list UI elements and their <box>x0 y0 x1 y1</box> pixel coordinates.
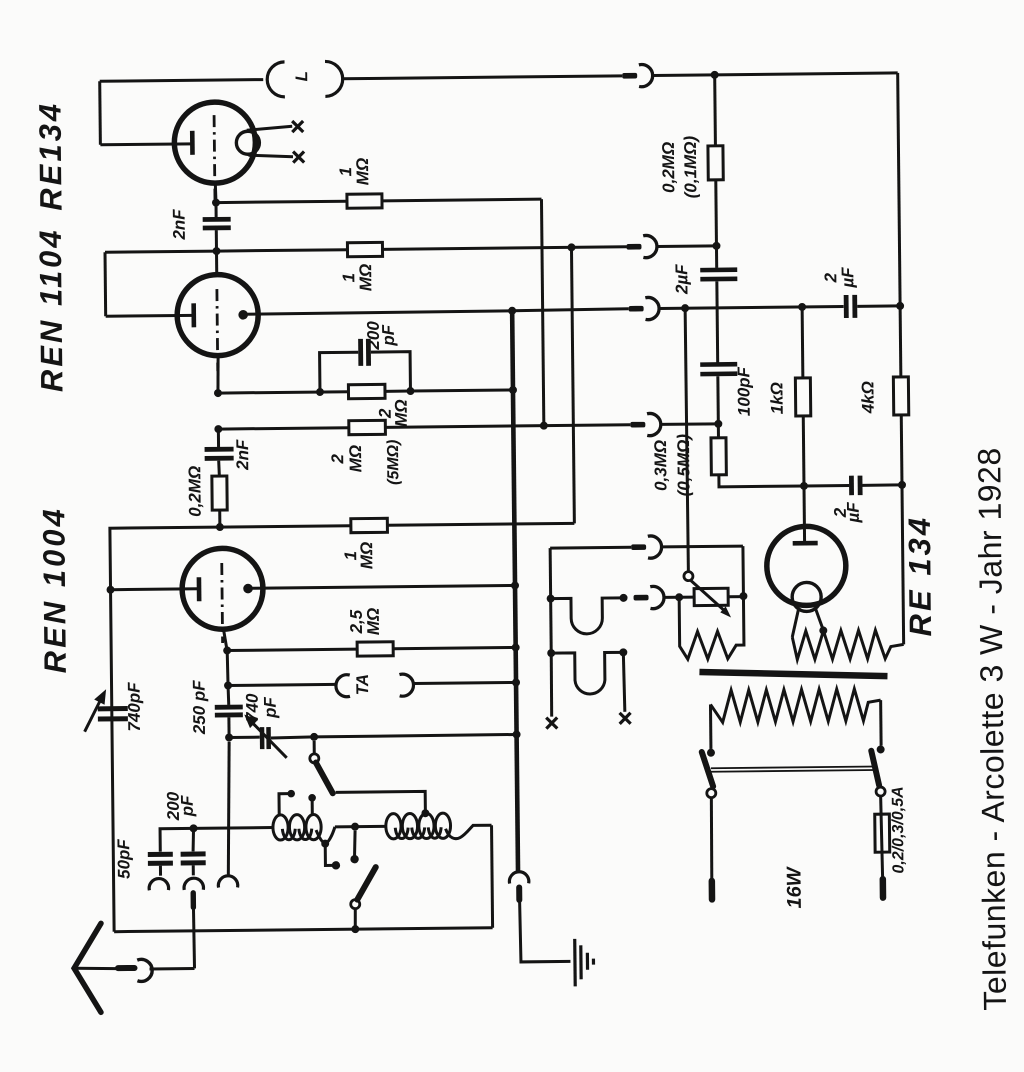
resistor fixed zigzag below rheostat <box>679 546 744 659</box>
svg-text:REN 1104: REN 1104 <box>33 227 70 392</box>
wire heater lead top <box>247 126 293 130</box>
wire antenna row <box>74 968 116 969</box>
wire row426 to connector <box>385 425 630 428</box>
tube REN1004 axis dash-dot <box>220 563 224 643</box>
node rheostat right <box>739 592 747 600</box>
transformer core bar <box>699 670 887 678</box>
tuning cap arrow <box>84 700 101 732</box>
svg-text:REN 1004: REN 1004 <box>36 506 73 673</box>
node bus row390 <box>509 386 517 394</box>
wire grid bus (thick) <box>512 311 518 871</box>
svg-text:1kΩ: 1kΩ <box>767 382 786 414</box>
resistor 2M (RC combo) <box>348 384 385 398</box>
wire antenna to riser <box>150 967 195 970</box>
antenna symbol <box>74 923 102 1012</box>
resistor 1M row524 <box>351 518 388 532</box>
terminal x top <box>292 121 303 132</box>
wire 2nF2 to 0.2M2 <box>217 461 221 476</box>
wire filament leg right <box>815 608 823 630</box>
switch coupling bar <box>711 767 876 772</box>
resistor 0.2M (0.1M) <box>708 146 723 180</box>
tube REN1104 grid dot <box>238 310 248 320</box>
wire R2 to node <box>382 247 626 250</box>
plug connector row 248 <box>626 244 641 250</box>
wire node to switch1 <box>313 741 316 754</box>
trimmer arrow <box>250 720 287 758</box>
wire tube REN1104 bottom lead <box>216 356 220 392</box>
capacitor 740pF tuning <box>98 706 128 711</box>
wire corner down to row 426 <box>541 199 543 425</box>
resistor 1k <box>795 378 810 416</box>
wire REN1004 column <box>226 650 230 685</box>
rheostat pivot circle <box>684 572 693 581</box>
tube RE134 anode loop <box>236 131 259 154</box>
wire 0.2M to row248 <box>714 180 718 246</box>
wire top row right segment <box>653 73 897 76</box>
wire rheostat box leads <box>679 595 743 599</box>
plug pin antenna <box>191 893 197 907</box>
node bus row682 <box>512 678 520 686</box>
node grid bus top <box>508 307 516 315</box>
svg-text:250 pF: 250 pF <box>189 680 209 736</box>
wire top row middle segment <box>341 76 622 79</box>
wire 50pF to socket <box>159 866 162 876</box>
node row734 switch <box>310 733 318 741</box>
svg-text:MΩ: MΩ <box>364 608 383 636</box>
wire trim cap to node <box>271 737 314 738</box>
node row426 left <box>214 425 222 433</box>
node 1k column top <box>798 303 806 311</box>
rheostat arrow <box>691 580 727 613</box>
resistor R2 1 Mohm <box>347 242 382 256</box>
node row248 / riser <box>567 243 575 251</box>
resistor 2M (5M) <box>349 420 386 434</box>
node RC left <box>316 388 324 396</box>
node right bus row489 <box>898 481 906 489</box>
node winding left <box>707 749 715 757</box>
capacitor 200pF loop wires <box>320 352 411 392</box>
node rheostat column top <box>681 304 689 312</box>
node top row / 0.2M column <box>711 71 719 79</box>
wire row489 to 2uF <box>804 484 849 487</box>
wire 200pF branch <box>191 828 195 851</box>
tube REN 1104 envelope <box>177 274 259 356</box>
capacitor 100pF <box>700 362 737 367</box>
svg-text:16W: 16W <box>783 865 805 908</box>
plug pin left <box>709 881 716 899</box>
node bus row585 <box>511 581 519 589</box>
wire left bus top segment <box>98 81 102 144</box>
resistor R1 1 Mohm <box>347 194 382 208</box>
svg-text:0,2MΩ: 0,2MΩ <box>185 466 205 517</box>
wire connector row426 to 0.3M <box>661 422 718 426</box>
plug pin bus bottom <box>516 887 522 899</box>
wire third socket lead <box>227 742 231 875</box>
svg-text:L: L <box>292 71 311 82</box>
svg-text:2µF: 2µF <box>672 264 691 295</box>
wire tube REN1104 input lead <box>106 314 194 318</box>
svg-text:pF: pF <box>379 324 398 347</box>
switch pivot right <box>876 787 885 796</box>
wire row524 right <box>387 523 574 525</box>
svg-text:100pF: 100pF <box>734 366 754 416</box>
plug connector row547 <box>631 544 646 550</box>
wire row734 to trim cap <box>229 736 260 739</box>
wire top row left segment <box>100 80 263 82</box>
svg-text:50pF: 50pF <box>114 839 133 879</box>
wire 100pF to row426 <box>716 376 719 424</box>
node center tap <box>351 823 359 831</box>
svg-text:2: 2 <box>328 453 347 464</box>
wire row547 left <box>550 546 631 550</box>
wire winding left lead <box>709 704 712 748</box>
capacitor 250pF <box>215 705 243 710</box>
socket arc third <box>218 876 238 888</box>
wire bottom row <box>114 928 492 932</box>
tube RE134 output grid bar <box>793 541 818 546</box>
capacitor 2nF lower <box>205 447 234 452</box>
wire connector to 0.2M column <box>657 244 716 248</box>
node coil tap right <box>421 809 429 817</box>
node 200pF tap <box>190 824 198 832</box>
svg-text:MΩ: MΩ <box>392 399 411 427</box>
rheostat box <box>694 588 728 605</box>
wire grid row REN1104 to bus <box>243 311 512 315</box>
wire to terminal x2 <box>623 652 625 712</box>
switch2 lever <box>357 867 376 899</box>
resistor 2.5M <box>357 642 393 656</box>
wire RC right <box>385 390 410 393</box>
svg-text:(0,1MΩ): (0,1MΩ) <box>681 135 701 198</box>
svg-text:(5MΩ): (5MΩ) <box>385 439 402 485</box>
svg-text:4kΩ: 4kΩ <box>858 381 877 414</box>
coil L1 tap stub 2 <box>311 801 314 814</box>
wire switch1 to coil tap <box>336 791 426 811</box>
wire left pole <box>711 798 712 879</box>
svg-text:740pF: 740pF <box>125 682 145 732</box>
capacitor 740pF trimmer (series) <box>260 727 265 749</box>
wire rheostat column <box>685 308 688 571</box>
wire row647 <box>227 649 357 650</box>
wire row426 left <box>218 428 348 429</box>
plug connector row426 <box>630 422 645 428</box>
wire left bus segment <box>104 252 108 316</box>
tube RE134 axis dash-dot <box>213 115 217 199</box>
connector TA <box>336 674 414 697</box>
wire 2uF to right bus <box>857 304 900 307</box>
resistor 0.2M lower <box>212 476 227 510</box>
svg-text:0,2MΩ: 0,2MΩ <box>659 142 679 193</box>
switch2 pivot <box>351 900 360 909</box>
wire into 2nF cap <box>214 203 217 217</box>
wire 1k to row489 <box>802 416 806 486</box>
wire tube REN1104 top lead <box>215 251 218 275</box>
coil L2 exit <box>446 825 492 839</box>
svg-text:RE134: RE134 <box>32 101 68 211</box>
svg-text:pF: pF <box>178 795 197 818</box>
node row426 right <box>714 420 722 428</box>
wire right bus vertical <box>898 73 904 644</box>
wire riser row524 to row248 <box>571 247 574 523</box>
wire winding right lead <box>879 700 882 745</box>
wire top to 0.2M resistor <box>713 75 717 146</box>
capacitor 50pF <box>148 852 173 857</box>
wire U-link column <box>550 548 551 653</box>
wire row248 to 2uF <box>715 246 718 268</box>
node filament tap <box>819 627 827 635</box>
stub below L1 exit <box>325 846 333 866</box>
wire between coils <box>335 825 385 829</box>
switch1 pivot <box>310 754 319 763</box>
coil L1 exit to tap <box>316 827 335 844</box>
svg-text:TA: TA <box>353 674 372 696</box>
resistor filament zigzag <box>792 630 904 660</box>
coil L2 (4 turns) <box>386 814 401 839</box>
socket arc 200pF <box>184 878 204 890</box>
svg-text:0,2/0,3/0,5A: 0,2/0,3/0,5A <box>890 786 908 873</box>
plug connector row599 <box>634 595 649 601</box>
wire 250pF to row734 <box>227 717 230 737</box>
stub below center tap <box>354 831 355 857</box>
tube RE134 (detector) envelope <box>174 102 256 184</box>
node bus row734 <box>513 730 521 738</box>
tube REN1004 electrode bar <box>197 577 202 601</box>
svg-text:pF: pF <box>261 696 280 719</box>
coil L1 tap stub 1 <box>279 794 288 816</box>
svg-text:(0,5MΩ): (0,5MΩ) <box>674 434 694 497</box>
node row426 riser <box>540 422 548 430</box>
coil L1 (3 turns) <box>273 815 288 840</box>
tube RE134 output filament loop <box>792 582 821 611</box>
wire 200pF to socket <box>192 865 195 875</box>
node U2 left <box>547 649 555 657</box>
capacitor 200pF plates <box>358 339 363 366</box>
tube RE134 electrode bar <box>190 131 195 155</box>
svg-text:740: 740 <box>243 693 262 722</box>
resistor 0.3M (0.5M) <box>711 438 726 475</box>
switch lever right <box>871 751 879 786</box>
socket arc 50pF <box>149 878 169 890</box>
wire row to R1 <box>216 201 347 202</box>
node row682 left <box>224 681 232 689</box>
capacitor 200pF antenna <box>181 851 206 856</box>
socket arc antenna row <box>137 959 152 981</box>
wire 2uF to right bus <box>862 483 901 486</box>
wire switch2 to bottom row <box>354 909 357 926</box>
wire connector to 2uF cap <box>660 307 844 309</box>
tube REN1104 axis dash-dot <box>215 289 219 371</box>
svg-text:MΩ: MΩ <box>357 542 376 570</box>
node bottom switch <box>351 925 359 933</box>
tube REN1004 grid dot <box>243 584 253 594</box>
wire tube REN1004 bottom lead <box>223 629 226 648</box>
wire row248 to left bus <box>105 251 216 252</box>
plug connector top row <box>622 73 637 79</box>
node RC right <box>406 387 414 395</box>
wire row647 to bus <box>393 647 515 648</box>
transformer winding <box>710 689 881 723</box>
tube RE134 output envelope <box>766 526 846 606</box>
node winding right <box>877 745 885 753</box>
node row647 left <box>223 646 231 654</box>
wire row310 to 100pF <box>716 308 720 363</box>
wire L2 right corner down <box>492 825 493 927</box>
wire tube RE134 input lead <box>100 142 192 146</box>
node row489 / grid column <box>800 482 808 490</box>
node L1 lower tap <box>321 840 329 848</box>
node row734 left <box>225 733 233 741</box>
wire filament leg left <box>792 608 799 637</box>
wire grid row to connector <box>512 309 629 311</box>
wire row426 to 2nF2 <box>217 429 220 447</box>
resistor 4k (on right bus) <box>893 377 908 415</box>
node bus row647 <box>512 643 520 651</box>
svg-text:µF: µF <box>838 267 857 289</box>
wire row734 to bus <box>314 734 516 736</box>
capacitor 2nF (coupling) <box>203 217 231 222</box>
svg-text:2nF: 2nF <box>233 439 252 471</box>
wire row390 <box>218 392 348 393</box>
wire right pole <box>881 796 883 877</box>
node cathode RE134 <box>212 199 220 207</box>
node left bus row585 <box>106 586 114 594</box>
wire tube REN1004 input lead <box>111 587 199 591</box>
U-link 2 <box>551 652 624 694</box>
svg-text:MΩ: MΩ <box>353 158 372 186</box>
wire row682 left <box>228 684 336 685</box>
wire bus pin to ground <box>520 901 571 962</box>
svg-text:MΩ: MΩ <box>356 264 375 292</box>
node U1 left <box>547 595 555 603</box>
tube REN1104 electrode bar <box>191 303 196 327</box>
wire 1k column top <box>801 307 805 378</box>
wire 50pF branch <box>160 828 193 851</box>
capacitor 2uF (right, row 310) <box>844 295 849 318</box>
node row 248 left <box>212 247 220 255</box>
capacitor 2uF (row 489) <box>849 476 854 496</box>
wire R1 to corner <box>382 199 541 201</box>
wire row248 to R2 <box>217 250 348 251</box>
U-link 1 <box>551 598 624 634</box>
plug pin antenna row <box>118 965 134 971</box>
svg-text:Telefunken - Arcolette 3 W - J: Telefunken - Arcolette 3 W - Jahr 1928 <box>971 447 1013 1011</box>
node row390 left <box>214 389 222 397</box>
terminal x bottom <box>293 151 304 162</box>
switch lever left <box>702 752 713 787</box>
wire coil baseline left <box>193 826 273 830</box>
wire grid row REN1004 <box>248 585 515 588</box>
wire row547 right <box>662 545 743 549</box>
wire 2nF to row 248 <box>215 230 218 251</box>
wire tube RE134 cathode lead <box>214 183 218 203</box>
wire connector row599 to rheostat <box>665 596 680 599</box>
wire heater lead bottom <box>248 155 293 157</box>
svg-text:µF: µF <box>844 502 863 524</box>
wire row524 left + left bus <box>110 526 355 932</box>
node rheostat left <box>675 593 683 601</box>
switch1 lever <box>316 762 333 793</box>
wire 0.3M leads <box>718 423 804 487</box>
socket arc bus bottom <box>509 872 529 884</box>
svg-text:2nF: 2nF <box>170 209 189 241</box>
wire row682 right to bus <box>414 682 516 683</box>
wire 2uF to row310 <box>715 281 718 307</box>
plug pin right <box>880 879 887 897</box>
svg-text:0,3MΩ: 0,3MΩ <box>651 440 671 491</box>
fuse 0.2/0.3/0.5A <box>875 814 890 852</box>
terminal x2 <box>620 713 631 724</box>
wire column to 250pF <box>227 685 231 705</box>
node row524 <box>216 523 224 531</box>
node row248 right <box>712 242 720 250</box>
wire to terminal x1 <box>550 653 554 716</box>
capacitor 2uF (column) <box>700 267 737 272</box>
node U1 right <box>620 594 628 602</box>
connector L (coil jack) <box>267 61 343 97</box>
ground symbol <box>575 939 594 987</box>
wire grid lead output tube <box>802 486 806 543</box>
svg-text:RE 134: RE 134 <box>902 515 938 637</box>
switch pivot left <box>707 789 716 798</box>
svg-text:MΩ: MΩ <box>346 445 365 473</box>
wire 0.2M2 to row524 <box>218 510 221 527</box>
terminal x1 <box>546 718 557 729</box>
node right bus row310 <box>896 302 904 310</box>
plug connector grid row <box>629 306 644 312</box>
tube REN 1004 envelope <box>182 548 264 630</box>
wire row390 to bus <box>410 390 512 391</box>
node U2 right <box>619 648 627 656</box>
wire pin down across bottom row <box>193 909 194 968</box>
